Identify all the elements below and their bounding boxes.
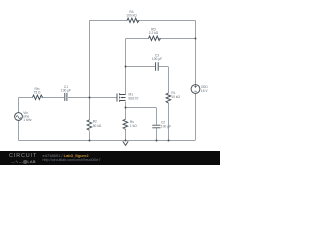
banner title text bbox=[43, 153, 89, 158]
resistor Rin bbox=[33, 95, 43, 99]
capacitor C3 bbox=[156, 62, 159, 71]
svg-text:16 V: 16 V bbox=[201, 89, 209, 93]
node gate junction bbox=[89, 97, 91, 99]
node drain-C3 junction bbox=[125, 66, 127, 68]
wire right vertical VDD bbox=[195, 21, 197, 141]
resistor Rs bbox=[123, 119, 128, 129]
wire R2 branch bbox=[89, 98, 91, 141]
node rail C2 bbox=[156, 140, 158, 142]
wire input row bbox=[19, 97, 117, 99]
node rail R2 bbox=[89, 140, 91, 142]
svg-text:100 µF: 100 µF bbox=[161, 124, 171, 128]
wire Vin branch bbox=[18, 98, 20, 141]
svg-text:100 µF: 100 µF bbox=[152, 57, 162, 61]
node rail ground bbox=[125, 140, 127, 142]
wire top rail VDD to R4 bbox=[89, 20, 196, 22]
svg-text:R2: R2 bbox=[93, 120, 97, 124]
node VDD-RD junction bbox=[195, 38, 197, 40]
node rail RL bbox=[168, 140, 170, 142]
resistor R4 bbox=[127, 18, 139, 22]
wire bottom rail bbox=[19, 140, 196, 142]
logo CircuitLab bbox=[9, 153, 37, 159]
wire source vertical bbox=[125, 102, 127, 141]
wire C2 branch bbox=[126, 108, 157, 141]
svg-text:100 kΩ: 100 kΩ bbox=[126, 14, 137, 18]
wire left vertical gate bias bbox=[89, 21, 91, 98]
resistor RD bbox=[149, 36, 161, 40]
resistor RL bbox=[166, 93, 171, 103]
capacitor C2 bbox=[152, 125, 160, 128]
capacitor C1 bbox=[65, 93, 67, 101]
banner url text bbox=[43, 158, 101, 162]
svg-text:10 kΩ: 10 kΩ bbox=[171, 95, 180, 99]
wire C3 output row bbox=[126, 66, 169, 68]
wire RL vertical bbox=[168, 67, 170, 141]
source VDD bbox=[191, 85, 200, 94]
svg-text:BS170: BS170 bbox=[129, 97, 139, 101]
svg-text:90 kΩ: 90 kΩ bbox=[93, 124, 102, 128]
svg-text:1 kHz: 1 kHz bbox=[23, 118, 32, 122]
svg-text:100 µF: 100 µF bbox=[61, 88, 71, 92]
banner CircuitLab footer bbox=[0, 151, 220, 166]
wire drain vertical bbox=[125, 39, 127, 95]
source Vin bbox=[15, 113, 23, 121]
svg-text:2.2 kΩ: 2.2 kΩ bbox=[149, 31, 159, 35]
svg-text:75 Ω: 75 Ω bbox=[34, 90, 42, 94]
resistor R2 bbox=[87, 120, 92, 131]
wire RD row bbox=[126, 38, 196, 40]
svg-text:1 kΩ: 1 kΩ bbox=[130, 124, 137, 128]
node source-C2 junction bbox=[125, 107, 127, 109]
transistor M1 bbox=[116, 94, 118, 102]
ground bbox=[123, 141, 128, 145]
